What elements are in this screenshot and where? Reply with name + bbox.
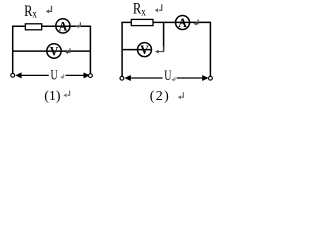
svg-text:U: U [51, 68, 58, 84]
line-break mark after Rx label (C1) [49, 6, 52, 12]
terminal node (C2 left) [120, 76, 124, 80]
terminal node (C1 left) [11, 73, 15, 77]
terminal node (C1 right) [89, 74, 93, 78]
wire: C2 top horizontal [121, 21, 211, 23]
wire: C2 left vertical [121, 22, 123, 76]
svg-text:x: x [32, 6, 37, 20]
wire: C1 middle voltmeter branch [13, 50, 91, 52]
wire: C1 left vertical [12, 26, 14, 73]
line-break mark after voltmeter (C1) [68, 48, 71, 52]
svg-text:V: V [50, 44, 59, 59]
svg-text:x: x [141, 4, 146, 18]
line-break mark after caption (1) [67, 91, 69, 96]
wire: C1 top horizontal [12, 25, 91, 27]
line-break mark after caption (2) [181, 92, 183, 97]
voltmeter V (C2) [138, 43, 152, 57]
line-break mark after U (C2) [174, 77, 175, 80]
wire: C1 right vertical [89, 26, 91, 73]
wire: C2 inner vertical (R-A junction down to voltmeter) [163, 22, 165, 51]
wire: C2 middle voltmeter branch [122, 49, 152, 51]
U arrow left half (C1) [15, 72, 21, 78]
resistor Rx (C1) [25, 24, 41, 30]
svg-text:(2): (2) [150, 89, 171, 104]
svg-text:(1): (1) [44, 89, 61, 104]
svg-text:V: V [140, 42, 149, 57]
line-break mark after Rx label (C2) [159, 4, 162, 10]
voltmeter V (C1) [47, 44, 61, 58]
svg-text:A: A [59, 18, 68, 33]
line-break mark after ammeter (C1) [79, 22, 81, 26]
U arrow left half (C2) [124, 75, 130, 81]
terminal node (C2 right) [209, 76, 213, 80]
U arrow right half (C2) [177, 77, 203, 79]
ammeter A (C2) [176, 16, 190, 30]
wire: C2 right vertical [209, 22, 211, 76]
line-break mark at voltmeter junction (C2) [158, 46, 163, 52]
svg-text:A: A [178, 15, 187, 30]
svg-text:U: U [164, 68, 171, 84]
U arrow right half (C1) [66, 74, 85, 76]
line-break mark after ammeter (C2) [196, 20, 198, 24]
line-break mark after U (C1) [63, 74, 64, 77]
resistor Rx (C2) [131, 19, 153, 25]
ammeter A (C1) [56, 19, 70, 33]
